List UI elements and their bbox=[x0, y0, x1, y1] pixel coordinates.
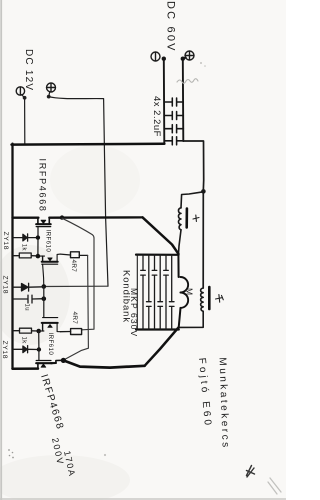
cap bank C8 bbox=[152, 255, 157, 330]
node top drain bbox=[60, 215, 64, 219]
top common bus bbox=[12, 143, 165, 146]
pencil corner marks bottom right bbox=[268, 478, 281, 494]
wire cross-coupling V2 (top 4R7 to bottom drain) bbox=[64, 255, 89, 360]
drain bus Q1 left segment bbox=[13, 217, 39, 219]
resistor R4 4R7 (bottom) bbox=[61, 329, 82, 335]
drain bus Q4 left segment bbox=[13, 367, 39, 370]
svg-text:1k: 1k bbox=[21, 244, 27, 252]
wire DC12 minus to common bus bbox=[22, 95, 27, 144]
svg-text:ZY18: ZY18 bbox=[2, 276, 9, 295]
cap bank line 1 bbox=[136, 255, 138, 330]
core symbol L1 bbox=[193, 215, 199, 222]
wire tank top thick diagonal bbox=[143, 217, 179, 253]
capacitor C2 2.2u bbox=[164, 112, 183, 120]
faint pencil specks bbox=[104, 62, 206, 456]
wire +12V feed row bbox=[44, 285, 108, 287]
core of L1 bbox=[185, 209, 188, 228]
zener ZD2 ZY18 row (bottom) bbox=[13, 346, 39, 353]
wire DC60 minus rail bbox=[162, 57, 166, 144]
terminal DC12 plus bbox=[47, 83, 56, 92]
core of L2 bbox=[208, 287, 211, 309]
capacitor C4 2.2u bbox=[164, 137, 183, 145]
drain bus Q1 right segment bbox=[49, 216, 142, 219]
diode D3 middle row bbox=[13, 283, 44, 291]
capacitor bank bottom bus bbox=[136, 328, 179, 330]
svg-text:DC 12V: DC 12V bbox=[23, 49, 34, 91]
svg-text:ZY18: ZY18 bbox=[2, 232, 9, 251]
cap bank C11 bbox=[169, 255, 174, 330]
capacitor C1 2.2u bbox=[164, 98, 183, 106]
choke L2 (lower, on + rail) bbox=[179, 288, 204, 327]
choke L1 Fojto E60 (upper) bbox=[178, 192, 203, 254]
wire DC60 plus rail bbox=[181, 57, 186, 142]
svg-text:4x 2.2uF: 4x 2.2uF bbox=[151, 96, 162, 137]
core symbol L2 bbox=[216, 295, 224, 303]
wire DC60+ down to choke node bbox=[183, 141, 205, 288]
ink scribble bottom right bbox=[247, 466, 255, 478]
cap bank C6 bbox=[141, 255, 146, 330]
bottom drain bus bbox=[63, 360, 144, 367]
pencil dots bottom left bbox=[8, 449, 14, 458]
left common bus bbox=[11, 144, 13, 369]
svg-text:MKP 630V: MKP 630V bbox=[129, 288, 139, 337]
svg-text:IRF610: IRF610 bbox=[45, 230, 52, 253]
capacitor C5 1u bbox=[13, 295, 44, 303]
svg-text:ZY18: ZY18 bbox=[1, 341, 8, 360]
wire Q4 gate lead bbox=[38, 331, 40, 360]
svg-text:4R7: 4R7 bbox=[70, 260, 77, 273]
resistor R2 4R7 (top) bbox=[61, 252, 88, 258]
svg-text:IRFP4668: IRFP4668 bbox=[38, 159, 48, 213]
svg-text:4R7: 4R7 bbox=[71, 312, 78, 325]
capacitor C3 2.2u bbox=[164, 125, 183, 133]
MOSFET Q3 IRF610 (bottom driver) bbox=[42, 318, 61, 332]
svg-text:1k: 1k bbox=[21, 337, 27, 345]
terminal DC12 minus bbox=[16, 87, 24, 95]
zener ZD1 ZY18 row bbox=[13, 234, 38, 241]
MOSFET Q2 IRF610 bbox=[38, 254, 61, 286]
cap bank C9 bbox=[158, 255, 163, 330]
svg-text:M: M bbox=[185, 288, 195, 295]
svg-text:1u: 1u bbox=[24, 304, 30, 311]
resistor R3 1k (bottom) bbox=[13, 328, 39, 333]
wire tank bottom thick diagonal bbox=[145, 328, 179, 366]
pencil squiggle top bbox=[177, 79, 198, 84]
right tank bus with work coil M bbox=[177, 254, 179, 277]
wire Q3 row to Q4 gate bbox=[39, 330, 44, 332]
cap bank C10 bbox=[164, 255, 169, 330]
wire cross-coupling V1 (top drain to bottom 4R7) bbox=[62, 218, 94, 330]
capacitor bank top bus bbox=[136, 254, 179, 256]
node bottom drain blob bbox=[61, 358, 66, 363]
scan edge left bbox=[0, 0, 2, 500]
work coil (Munkatekercs) bbox=[180, 277, 188, 308]
cap bank C7 bbox=[147, 255, 152, 330]
wire gate link Q2-Q3 bbox=[43, 287, 45, 318]
svg-text:DC 60V: DC 60V bbox=[165, 1, 177, 53]
terminal DC60 minus bbox=[151, 52, 160, 61]
terminal DC60 plus bbox=[185, 51, 194, 60]
MOSFET Q4 IRFP4668 (bottom power) bbox=[36, 360, 63, 368]
resistor R1 1k bbox=[13, 253, 38, 258]
wire DC12 plus rail bbox=[47, 92, 108, 287]
MOSFET Q1 IRFP4668 bbox=[36, 218, 51, 256]
svg-text:IRF610: IRF610 bbox=[47, 333, 54, 356]
